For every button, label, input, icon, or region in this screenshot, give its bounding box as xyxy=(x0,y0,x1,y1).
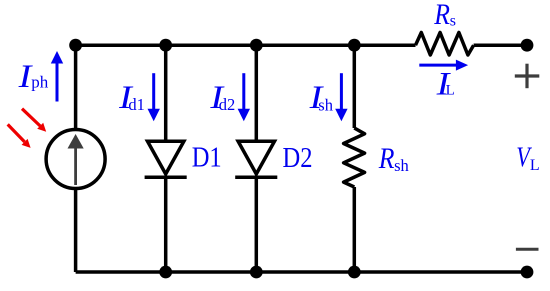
wire D2 branch upper xyxy=(255,45,259,141)
resistor R_sh xyxy=(344,128,365,187)
terminal dot top right xyxy=(521,39,534,52)
current arrow I_d1 xyxy=(148,73,160,121)
node D (top, Rsh) xyxy=(348,39,361,52)
resistor R_s xyxy=(416,33,474,56)
wire top-right to terminal xyxy=(474,43,527,47)
svg-text:sh: sh xyxy=(318,95,333,114)
minus sign xyxy=(516,248,539,251)
current arrow I_ph xyxy=(51,51,63,102)
wire left branch (current source) xyxy=(74,45,78,272)
wire bottom rail xyxy=(76,270,527,274)
current arrow I_sh xyxy=(335,73,347,121)
node A (top left) xyxy=(69,39,82,52)
wire D1 branch lower xyxy=(164,177,168,272)
wire top rail xyxy=(76,43,416,47)
svg-text:L: L xyxy=(530,157,540,174)
svg-text:sh: sh xyxy=(394,156,409,175)
svg-text:R: R xyxy=(433,0,450,31)
svg-text:s: s xyxy=(450,12,456,29)
current arrow I_L xyxy=(419,60,468,71)
node C2 (bottom, D2) xyxy=(250,266,263,279)
node D2b (bottom, Rsh) xyxy=(348,266,361,279)
wire Rsh branch lower xyxy=(353,187,357,272)
terminal dot bottom right xyxy=(521,266,534,279)
diode D1 xyxy=(145,141,187,177)
diode D2 xyxy=(235,141,277,177)
wire D2 branch lower xyxy=(255,177,259,272)
svg-text:d2: d2 xyxy=(219,95,236,114)
current source arrow xyxy=(68,134,84,185)
svg-text:R: R xyxy=(378,142,395,175)
svg-text:D2: D2 xyxy=(283,143,313,174)
light arrow 2 xyxy=(8,124,31,147)
svg-text:D1: D1 xyxy=(192,143,222,174)
node B (top, D1) xyxy=(159,39,172,52)
node B2 (bottom, D1) xyxy=(159,266,172,279)
svg-text:L: L xyxy=(446,83,455,99)
svg-text:ph: ph xyxy=(31,72,49,91)
plus sign xyxy=(515,64,540,88)
node C (top, D2) xyxy=(250,39,263,52)
light arrow 1 xyxy=(22,109,46,132)
wire D1 branch upper xyxy=(164,45,168,141)
current arrow I_d2 xyxy=(238,73,250,121)
wire Rsh branch upper xyxy=(353,45,357,128)
current source U1 xyxy=(46,130,105,189)
svg-text:d1: d1 xyxy=(128,95,145,114)
